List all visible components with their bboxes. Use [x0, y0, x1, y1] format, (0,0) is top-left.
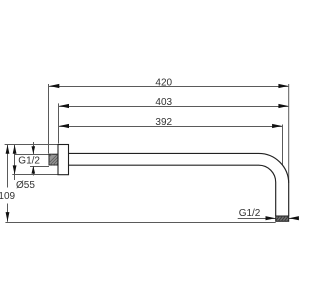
svg-text:G1/2: G1/2	[18, 155, 40, 166]
svg-text:403: 403	[155, 97, 172, 108]
svg-text:392: 392	[155, 117, 172, 128]
svg-text:420: 420	[155, 78, 172, 89]
svg-text:Ø55: Ø55	[16, 180, 35, 191]
svg-text:G1/2: G1/2	[239, 208, 261, 219]
svg-text:109: 109	[0, 191, 16, 202]
